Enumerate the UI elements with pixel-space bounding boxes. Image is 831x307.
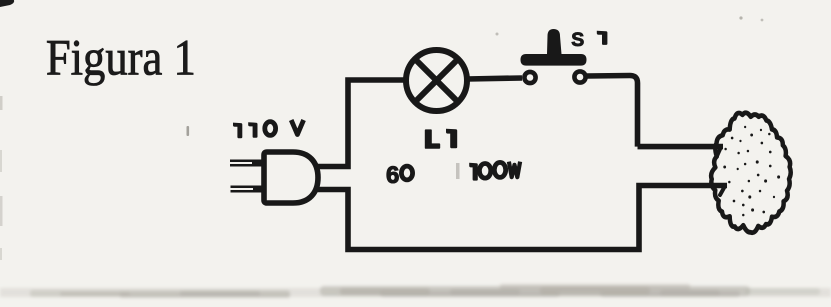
label S1 [571, 29, 607, 51]
value label 100W [469, 162, 520, 181]
lamp L1 [406, 50, 467, 111]
wire end hook at load top terminal [717, 147, 721, 156]
load element: steel sponge heater [711, 113, 791, 233]
wire: switch to load top terminal [587, 76, 723, 147]
net label 110 V (AC mains) [233, 120, 304, 138]
wire: lamp to switch left contact [467, 78, 522, 79]
svg-text:6: 6 [386, 162, 399, 189]
pushbutton S1 cap [521, 29, 587, 66]
label L1 [425, 129, 457, 149]
svg-text:S: S [571, 29, 584, 51]
switch S1 contact left [524, 72, 535, 83]
wire: plug phase up to top rail into lamp [314, 80, 404, 167]
svg-text:Figura 1: Figura 1 [46, 31, 196, 87]
value label 60 [386, 162, 413, 189]
AC plug P1 [230, 152, 318, 203]
wire: plug neutral down, bottom rail, up to load bottom terminal [314, 186, 727, 250]
wire end hook at load bottom terminal [720, 186, 725, 195]
faint letter a (60 a 100W) [456, 163, 460, 179]
switch S1 contact right [574, 71, 585, 82]
